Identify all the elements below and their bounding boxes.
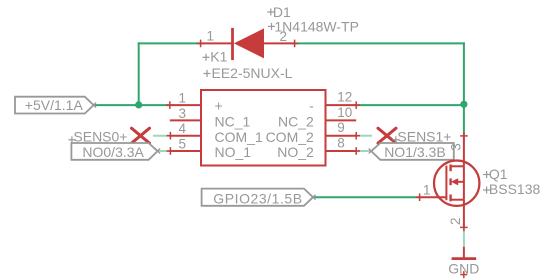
svg-text:EE2-5NUX-L: EE2-5NUX-L	[212, 65, 293, 81]
svg-text:BSS138: BSS138	[489, 181, 541, 197]
relay pin 9	[326, 135, 357, 137]
X marker SENS1	[378, 128, 396, 143]
label SENS1+	[392, 136, 399, 143]
svg-text:D1: D1	[273, 4, 291, 20]
wire pale relay pin4 stub to X	[153, 135, 171, 137]
svg-text:SENS0+: SENS0+	[73, 128, 127, 144]
relay pin 3	[170, 119, 201, 121]
mosfet gate pin 1	[420, 196, 447, 198]
svg-text:NO_1: NO_1	[215, 144, 252, 160]
svg-text:8: 8	[337, 135, 345, 150]
svg-text:5: 5	[178, 137, 186, 152]
wire right vertical down to mosfet drain	[463, 42, 465, 135]
svg-text:1: 1	[178, 91, 186, 106]
wire vertical riser from +5V junction up	[138, 42, 140, 105]
label BSS138	[483, 187, 490, 194]
svg-text:-: -	[309, 97, 314, 113]
relay pin 10	[326, 119, 357, 121]
label SENS0+	[68, 136, 75, 143]
flag NO0/3.3A	[71, 143, 157, 160]
svg-text:4: 4	[178, 121, 186, 136]
svg-text:1: 1	[423, 182, 431, 197]
svg-text:GPIO23/1.5B: GPIO23/1.5B	[213, 190, 302, 206]
flag GPIO23/1.5B	[202, 189, 313, 206]
svg-text:3: 3	[178, 106, 186, 121]
relay K1	[201, 90, 326, 166]
svg-text:1N4148W-TP: 1N4148W-TP	[274, 19, 359, 35]
svg-text:COM_1: COM_1	[215, 129, 263, 145]
svg-text:12: 12	[337, 90, 352, 105]
svg-text:SENS1+: SENS1+	[397, 128, 451, 144]
wire pale NO0 flag tip to relay pin5	[158, 150, 171, 152]
svg-text:COM_2: COM_2	[266, 129, 314, 145]
wire GPIO flag to mosfet gate	[313, 196, 420, 198]
svg-text:3: 3	[448, 143, 463, 151]
wire top horizontal to diode pin 1	[138, 42, 201, 44]
relay pin 4	[170, 135, 201, 137]
svg-text:+: +	[215, 97, 223, 113]
mosfet spine	[463, 166, 465, 199]
diode D1	[197, 28, 299, 60]
label EE2-5NUX-L	[204, 70, 211, 77]
svg-text:NO0/3.3A: NO0/3.3A	[82, 144, 144, 160]
svg-text:1: 1	[206, 28, 214, 43]
svg-text:K1: K1	[210, 49, 227, 65]
svg-text:NO_2: NO_2	[277, 144, 314, 160]
svg-text:9: 9	[337, 120, 345, 135]
label D1	[267, 9, 274, 16]
flag NO1/3.3B	[371, 143, 454, 160]
mosfet source pin 2	[463, 200, 465, 228]
mosfet source tooth	[450, 199, 464, 201]
svg-text:10: 10	[337, 105, 352, 120]
transistor Q1	[434, 161, 479, 206]
relay pin 12	[326, 104, 357, 106]
wire pale relay pin9 to X	[356, 135, 372, 137]
relay pin 8	[326, 150, 357, 152]
mosfet drain pin 3	[463, 136, 465, 166]
svg-text:Q1: Q1	[489, 166, 508, 182]
label 1N4148W-TP	[268, 23, 275, 30]
svg-text:NO1/3.3B: NO1/3.3B	[384, 144, 445, 160]
wire pale relay pin8 to NO1 flag tip	[356, 150, 371, 152]
svg-text:NC_1: NC_1	[215, 114, 251, 130]
flag +5V/1.1A	[15, 97, 94, 114]
junction dot left	[135, 101, 142, 108]
X marker SENS0	[132, 128, 150, 143]
mosfet gate bar	[445, 166, 447, 201]
mosfet channel dashes	[449, 164, 451, 201]
wire diode pin 2 to right corner	[295, 42, 465, 44]
label K1	[203, 54, 210, 61]
svg-text:2: 2	[448, 217, 463, 225]
label Q1	[483, 171, 490, 178]
relay pin 5	[170, 150, 201, 152]
wire pale mosfet source to gnd	[463, 227, 465, 246]
svg-text:NC_2: NC_2	[278, 114, 314, 130]
wire relay pin 12 to junction	[356, 104, 464, 106]
mosfet drain tooth	[450, 165, 464, 167]
wire +5V flag to relay pin 1	[94, 104, 170, 106]
mosfet body arrow	[456, 181, 464, 183]
svg-text:+5V/1.1A: +5V/1.1A	[25, 97, 84, 113]
relay pin 1	[170, 104, 201, 106]
junction dot right	[460, 101, 467, 108]
ground	[463, 247, 465, 259]
